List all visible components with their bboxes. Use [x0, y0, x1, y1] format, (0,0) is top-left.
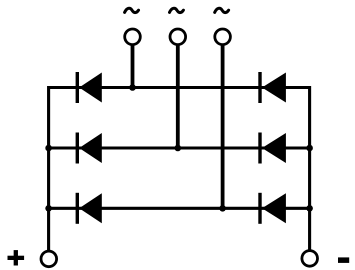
- diode D3 (row 2 left): [76, 133, 102, 164]
- wire: left bus, top phase line, right bus (outer frame): [49, 88, 310, 252]
- wire: phase line 2: [49, 146, 310, 149]
- diode D1 (row 1 left): [76, 72, 102, 103]
- wire: AC terminal 3 stem: [221, 44, 225, 208]
- junction: left bus / phase line 3: [45, 205, 52, 212]
- DC- terminal circle: [302, 251, 318, 267]
- label ~ (phase 1): [125, 8, 139, 12]
- junction: left bus / phase line 2: [45, 145, 52, 152]
- label + (positive output): [8, 250, 25, 265]
- DC+ terminal circle: [41, 251, 57, 267]
- AC terminal 1 circle: [125, 29, 141, 45]
- junction: right bus / phase line 3: [306, 205, 313, 212]
- wire: phase line 3: [49, 207, 310, 210]
- label ~ (phase 3): [215, 8, 229, 12]
- label - (negative output): [338, 257, 349, 263]
- wire: AC terminal 2 stem: [176, 44, 180, 148]
- diode D6 (row 3 right): [258, 193, 286, 224]
- junction: stem3 / phase line 3: [219, 205, 226, 212]
- AC terminal 3 circle: [215, 29, 231, 45]
- wire: AC terminal 1 stem: [131, 44, 135, 88]
- AC terminal 2 circle: [170, 29, 186, 45]
- diode D5 (row 3 left): [76, 193, 102, 224]
- junction: stem2 / phase line 2: [175, 145, 182, 152]
- junction: stem1 / phase line 1: [129, 84, 136, 91]
- diode D2 (row 1 right): [258, 72, 286, 103]
- label ~ (phase 2): [170, 8, 184, 12]
- junction: right bus / phase line 2: [306, 145, 313, 152]
- diode D4 (row 2 right): [258, 133, 286, 164]
